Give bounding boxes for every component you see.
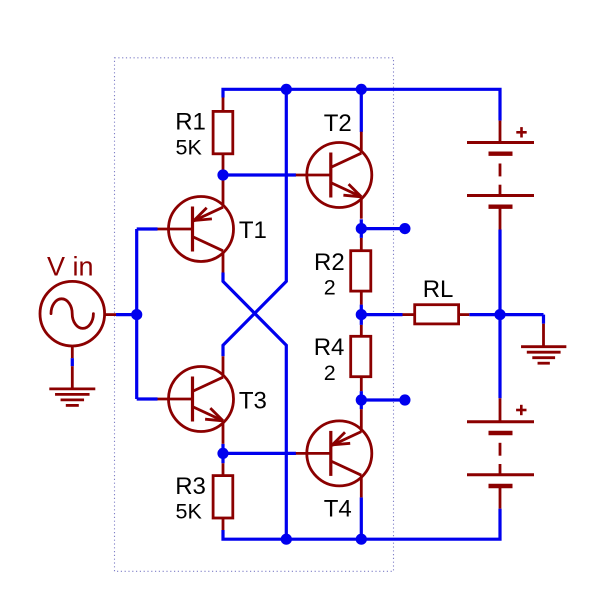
svg-text:T1: T1 bbox=[239, 217, 267, 244]
svg-text:2: 2 bbox=[324, 276, 336, 300]
svg-text:V in: V in bbox=[47, 252, 94, 282]
svg-text:R1: R1 bbox=[175, 108, 206, 135]
svg-text:2: 2 bbox=[324, 361, 336, 385]
svg-text:T2: T2 bbox=[324, 110, 352, 137]
svg-text:5K: 5K bbox=[176, 135, 203, 159]
svg-text:R4: R4 bbox=[314, 334, 345, 361]
svg-text:5K: 5K bbox=[176, 499, 203, 523]
svg-text:RL: RL bbox=[423, 276, 454, 303]
svg-text:T3: T3 bbox=[239, 388, 267, 415]
svg-text:R3: R3 bbox=[175, 473, 206, 500]
svg-text:T4: T4 bbox=[324, 495, 352, 522]
svg-text:R2: R2 bbox=[314, 249, 345, 276]
